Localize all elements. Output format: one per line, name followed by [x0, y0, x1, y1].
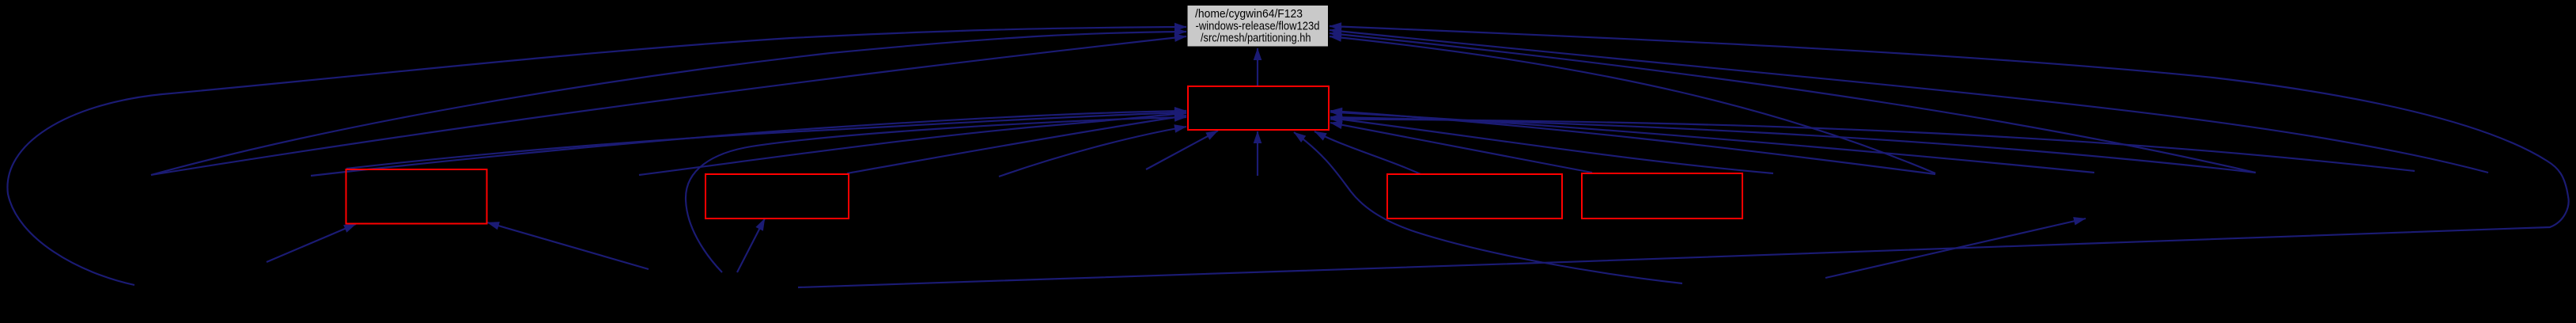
edge: left node to central node	[311, 111, 1186, 176]
edge: arrow into box1 bottom-left	[267, 224, 356, 262]
edge: far-left node to main header node (lower)	[151, 36, 1186, 175]
edge: box2 top-right to central node	[847, 116, 1186, 173]
edge: far-left node to main header node (upper)	[151, 32, 1186, 175]
edge: right node 2 to central node	[1330, 112, 2094, 173]
edge: vertical into central node bottom	[1257, 131, 1258, 176]
edge: big left C-curve to main header node	[7, 27, 1186, 285]
edge: node to central node bottom 1	[1146, 131, 1218, 169]
node: central red (hidden label)	[1188, 86, 1329, 130]
edge: right node to main header (4)	[1330, 36, 1935, 173]
node: red box2	[705, 174, 849, 218]
node: red box3	[1387, 174, 1562, 218]
svg-text:/home/cygwin64/F123: /home/cygwin64/F123	[1195, 8, 1303, 21]
edge: lower-left node to central node	[999, 127, 1186, 177]
edge: right node 4 to central node (bundle)	[1330, 120, 2415, 172]
edge: node box1 to central node	[346, 112, 1186, 169]
edge: giant border curve from bottom node to main header right	[798, 26, 2569, 287]
svg-text:/src/mesh/partitioning.hh: /src/mesh/partitioning.hh	[1201, 32, 1311, 45]
edge: far right node to main header (2)	[1330, 30, 2488, 173]
edge: curve around box2 left to central node	[686, 117, 1186, 272]
edge: mid-left node to central node	[639, 113, 1186, 175]
edge: far right node to main header (3)	[1330, 33, 2256, 173]
edge: right node to central node right edge	[1330, 118, 1773, 173]
edge: arrow into box2 bottom	[737, 218, 765, 272]
edge: S-curve from right node under box3 to central bottom	[1294, 132, 1682, 283]
edge: arrow to hidden node at right	[1825, 218, 2086, 278]
edge: central node to main header node (vertical)	[1257, 48, 1258, 86]
node: red box4	[1582, 173, 1742, 218]
svg-text:-windows-release/flow123d: -windows-release/flow123d	[1196, 20, 1320, 32]
edge: right node 1 to central node	[1330, 111, 1935, 174]
edge: box3 top to central node bottom-right corner	[1314, 131, 1420, 174]
node: red box1	[346, 169, 487, 224]
edge: right node 3 to central node	[1330, 117, 2256, 173]
edge: arrow into box1 bottom-right	[487, 222, 649, 269]
edge: box4 top-left to central node right edge	[1330, 123, 1592, 173]
node: main header (gray)	[1187, 6, 1329, 47]
